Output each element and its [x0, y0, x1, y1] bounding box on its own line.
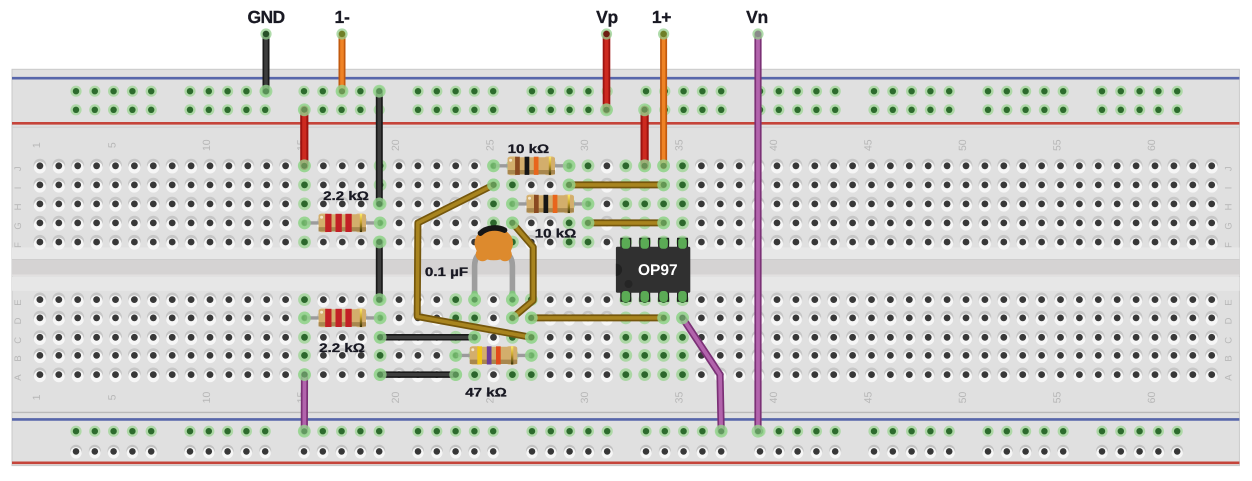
- svg-text:H: H: [13, 203, 24, 210]
- svg-text:B: B: [13, 355, 24, 361]
- svg-text:50: 50: [957, 392, 969, 404]
- svg-text:G: G: [1224, 222, 1235, 229]
- svg-text:55: 55: [1052, 392, 1064, 404]
- svg-text:45: 45: [863, 392, 875, 404]
- svg-text:1+: 1+: [652, 7, 671, 27]
- svg-text:A: A: [1224, 374, 1235, 381]
- svg-text:F: F: [1224, 242, 1235, 248]
- svg-text:10 kΩ: 10 kΩ: [535, 227, 577, 241]
- svg-text:0.1 µF: 0.1 µF: [425, 265, 469, 279]
- svg-text:20: 20: [390, 139, 402, 151]
- svg-text:I: I: [13, 187, 24, 190]
- svg-text:Vn: Vn: [746, 7, 768, 27]
- svg-text:55: 55: [1052, 139, 1064, 151]
- svg-text:A: A: [13, 374, 24, 381]
- svg-text:10: 10: [201, 139, 213, 151]
- svg-text:47 kΩ: 47 kΩ: [465, 386, 507, 400]
- svg-text:10: 10: [201, 392, 213, 404]
- svg-text:H: H: [1224, 203, 1235, 210]
- svg-text:2.2 kΩ: 2.2 kΩ: [323, 189, 369, 203]
- svg-text:30: 30: [579, 139, 591, 151]
- svg-text:1: 1: [31, 142, 43, 148]
- svg-text:2.2 kΩ: 2.2 kΩ: [319, 341, 365, 355]
- svg-text:Vp: Vp: [596, 7, 618, 27]
- svg-text:35: 35: [674, 139, 686, 151]
- svg-text:45: 45: [863, 139, 875, 151]
- svg-text:1: 1: [31, 394, 43, 400]
- svg-text:5: 5: [107, 394, 119, 400]
- svg-text:D: D: [1224, 317, 1235, 324]
- svg-text:60: 60: [1146, 392, 1158, 404]
- svg-text:F: F: [13, 242, 24, 248]
- svg-text:20: 20: [390, 392, 402, 404]
- svg-text:10 kΩ: 10 kΩ: [508, 142, 550, 156]
- svg-text:J: J: [1224, 166, 1235, 171]
- svg-text:OP97: OP97: [638, 262, 678, 279]
- svg-text:B: B: [1224, 355, 1235, 361]
- svg-text:C: C: [1224, 337, 1235, 344]
- svg-text:C: C: [13, 337, 24, 344]
- svg-text:35: 35: [674, 392, 686, 404]
- svg-text:50: 50: [957, 139, 969, 151]
- svg-text:40: 40: [768, 392, 780, 404]
- svg-text:5: 5: [107, 142, 119, 148]
- svg-text:25: 25: [485, 139, 497, 151]
- svg-text:D: D: [13, 317, 24, 324]
- svg-text:GND: GND: [247, 7, 284, 27]
- svg-text:40: 40: [768, 139, 780, 151]
- svg-text:1-: 1-: [335, 7, 350, 27]
- svg-text:60: 60: [1146, 139, 1158, 151]
- svg-text:E: E: [1224, 299, 1235, 305]
- svg-text:I: I: [1224, 187, 1235, 190]
- svg-text:J: J: [13, 166, 24, 171]
- svg-text:30: 30: [579, 392, 591, 404]
- svg-text:E: E: [13, 299, 24, 305]
- svg-text:G: G: [13, 222, 24, 229]
